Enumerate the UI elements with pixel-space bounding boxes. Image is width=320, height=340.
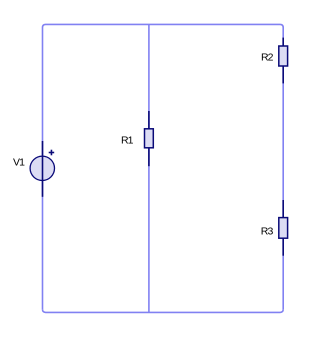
- wire top net (left corner to right corner): [43, 24, 284, 27]
- voltage source V1: [30, 141, 54, 197]
- plus polarity mark: [49, 152, 55, 154]
- resistor R2: [279, 38, 288, 84]
- wire right branch vertical: [282, 28, 284, 310]
- wire middle branch vertical: [148, 24, 150, 312]
- wire left branch vertical: [42, 28, 44, 310]
- resistor R3: [279, 200, 288, 256]
- svg-text:R1: R1: [121, 135, 134, 147]
- svg-text:V1: V1: [13, 157, 25, 169]
- resistor R1: [145, 111, 154, 166]
- svg-text:R2: R2: [261, 52, 274, 64]
- wire bottom net (left corner to right corner): [43, 309, 284, 312]
- svg-text:R3: R3: [261, 226, 274, 238]
